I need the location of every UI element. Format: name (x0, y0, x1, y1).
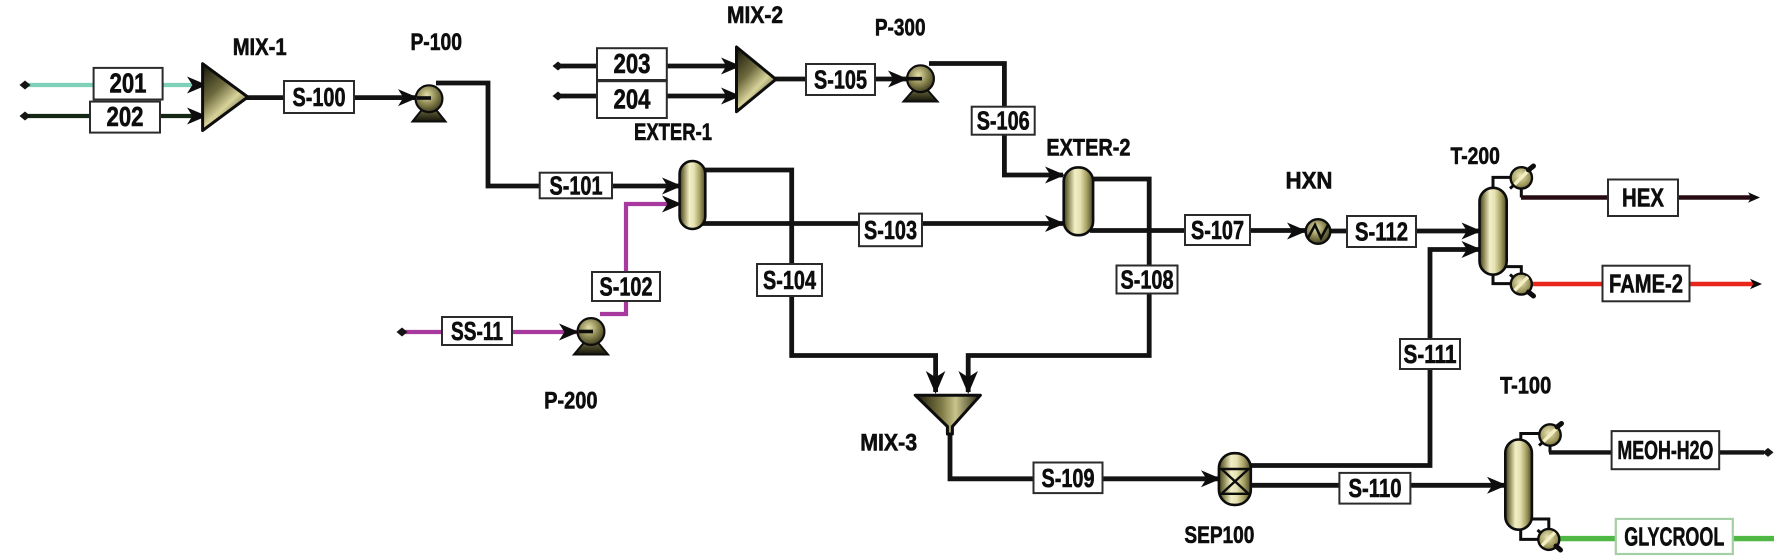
svg-text:SS-11: SS-11 (451, 316, 503, 346)
node S-104 label (757, 264, 822, 296)
arrow S-106 into EXTER-2 (1045, 167, 1065, 184)
svg-text:P-300: P-300 (875, 15, 926, 42)
svg-text:P-100: P-100 (410, 29, 462, 56)
node SS-11 label (442, 316, 512, 346)
wire T-200 reboiler vapor return (1505, 267, 1521, 276)
wire SS-11 (purple) (402, 330, 578, 334)
separator SEP100 (1219, 453, 1251, 505)
svg-text:S-111: S-111 (1404, 339, 1457, 369)
node GLYCROOL label (1616, 519, 1733, 554)
reboiler T-200 (1510, 274, 1534, 296)
svg-text:S-104: S-104 (763, 265, 816, 295)
svg-text:P-200: P-200 (544, 388, 597, 415)
wire T-200 reboiler liquid (1493, 272, 1511, 284)
wire S-110 SEP100 to T-100 (1248, 483, 1506, 488)
mixer MIX-1 (203, 64, 248, 131)
svg-text:S-109: S-109 (1042, 463, 1095, 493)
svg-text:MEOH-H2O: MEOH-H2O (1617, 435, 1713, 465)
condenser T-200 (1510, 166, 1534, 189)
arrow S-109 into SEP100 (1201, 470, 1221, 487)
mixer MIX-2 (737, 47, 776, 112)
wire S-104 EXTER-1 top to MIX-3 (701, 170, 936, 392)
svg-text:FAME-2: FAME-2 (1609, 269, 1683, 299)
node FAME-2 label (1603, 266, 1690, 302)
column T-200 (1480, 188, 1507, 275)
arrow S-111 into T-200 (1462, 241, 1482, 258)
heat exchanger HXN (1306, 219, 1331, 244)
node start marker 203 (553, 62, 564, 71)
wire S-102 P-200 outlet to EXTER-1 (purple) (600, 204, 672, 314)
svg-text:MIX-1: MIX-1 (233, 34, 287, 61)
arrow 204 into MIX-2 (721, 88, 741, 105)
wire S-107 EXTER-2 to HXN (1090, 228, 1306, 233)
wire T-200 condenser stub (1520, 186, 1523, 198)
wire SEP100 top to T-200 (S-111) (1246, 250, 1480, 466)
column T-100 (1505, 440, 1532, 530)
node start marker SS-11 (397, 328, 408, 337)
svg-text:204: 204 (614, 84, 651, 115)
node end marker MEOH-H2O (1763, 448, 1774, 457)
svg-text:203: 203 (614, 48, 651, 79)
svg-text:SEP100: SEP100 (1184, 522, 1254, 549)
svg-text:S-105: S-105 (814, 65, 867, 95)
wire stream 202 (dark green) (25, 114, 200, 118)
svg-text:S-108: S-108 (1121, 265, 1174, 295)
arrow S-110 into T-100 (1487, 477, 1507, 494)
node S-112 label (1347, 216, 1416, 247)
node 201 label (94, 68, 163, 100)
pump P-300 base (904, 90, 938, 102)
node S-108 label (1117, 265, 1178, 295)
node 202 label (90, 101, 160, 133)
node start marker 202 (20, 112, 31, 121)
svg-text:HXN: HXN (1286, 168, 1333, 195)
node S-109 label (1034, 463, 1103, 494)
svg-text:S-103: S-103 (864, 215, 917, 245)
wire HEX product line (1521, 195, 1752, 200)
arrow 201 into MIX-1 (187, 77, 207, 94)
node 203 label (597, 48, 667, 80)
svg-text:T-100: T-100 (1500, 373, 1551, 400)
node S-103 label (859, 214, 922, 247)
wire GLYCROOL product line (green) (1551, 536, 1774, 541)
pump P-100 base (413, 109, 446, 122)
node S-102 label (592, 272, 660, 302)
node S-100 label (284, 81, 354, 113)
svg-text:S-107: S-107 (1191, 215, 1244, 245)
arrow S-104 down into MIX-3 (926, 371, 946, 394)
svg-text:EXTER-1: EXTER-1 (634, 119, 712, 146)
condenser T-100 (1539, 424, 1562, 446)
svg-text:T-200: T-200 (1451, 143, 1500, 170)
wire P-300 outlet to EXTER-2 (S-106) (929, 64, 1063, 176)
arrow 202 into MIX-1 (187, 108, 207, 125)
wire S-103 EXTER-1 to EXTER-2 (700, 221, 1063, 226)
wire T-100 reboiler vapor return (1532, 519, 1549, 530)
svg-text:GLYCROOL: GLYCROOL (1624, 522, 1724, 552)
arrow S-112 into T-200 (1462, 223, 1482, 240)
mixer MIX-3 (funnel) (915, 395, 980, 434)
arrow S-108 down into MIX-3 (958, 371, 978, 394)
svg-text:202: 202 (107, 101, 144, 132)
node S-101 label (540, 171, 612, 201)
wire T-200 condenser loop (1493, 177, 1510, 190)
pump P-300 (907, 65, 934, 92)
node end marker FAME-2 (1750, 279, 1762, 289)
node S-110 label (1339, 473, 1410, 504)
arrow SS-11 into P-200 (559, 324, 579, 341)
svg-text:MIX-2: MIX-2 (727, 2, 783, 29)
wire stream 204 (558, 94, 740, 99)
node S-107 label (1185, 215, 1250, 245)
wire S-105 mixer to pump (774, 77, 907, 82)
node HEX label (1608, 180, 1678, 217)
svg-text:HEX: HEX (1622, 183, 1665, 213)
svg-text:201: 201 (110, 68, 147, 99)
reboiler T-100 (1538, 529, 1561, 550)
wire stream 201 (teal) (25, 83, 200, 87)
wire stream 203 (558, 64, 740, 69)
pump P-100 (416, 85, 443, 112)
svg-text:S-110: S-110 (1349, 473, 1402, 503)
svg-text:EXTER-2: EXTER-2 (1046, 135, 1130, 162)
wire T-100 condenser stub (1549, 444, 1552, 452)
svg-text:S-106: S-106 (977, 106, 1030, 136)
node start marker 204 (553, 92, 564, 101)
wire FAME-2 product line (red) (1527, 282, 1753, 287)
node S-111 label (1400, 339, 1460, 369)
column EXTER-1 (680, 161, 706, 229)
arrow S-103 into EXTER-2 (1045, 215, 1065, 232)
node start marker 201 (20, 81, 31, 90)
arrow S-100 into P-100 (398, 89, 418, 106)
svg-text:MIX-3: MIX-3 (860, 429, 917, 456)
node S-106 label (972, 106, 1035, 136)
svg-text:S-112: S-112 (1355, 217, 1408, 247)
svg-text:S-101: S-101 (550, 171, 603, 201)
arrow S-107 into HXN (1287, 223, 1307, 240)
wire T-100 reboiler liquid (1521, 527, 1540, 539)
wire MEOH-H2O product line (1549, 450, 1764, 454)
wire P-100 outlet to EXTER-1 (S-101) (436, 83, 681, 186)
pump P-200 base (574, 342, 608, 355)
node end marker HEX (1748, 192, 1760, 202)
column EXTER-2 (1064, 167, 1093, 235)
svg-text:S-100: S-100 (293, 82, 346, 112)
wire S-112 HXN to T-200 (1330, 229, 1480, 234)
arrow S-101 into EXTER-1 (662, 178, 682, 195)
arrow S-102 into EXTER-1 (662, 196, 682, 213)
wire S-100 mixer to pump (246, 95, 417, 100)
wire T-100 condenser loop (1521, 434, 1539, 442)
wire S-108 EXTER-2 top to MIX-3 (968, 179, 1149, 392)
wire S-109 MIX-3 to SEP100 (950, 432, 1219, 479)
arrow S-105 into P-300 (888, 71, 908, 88)
node S-105 label (806, 64, 875, 95)
svg-text:S-102: S-102 (600, 272, 653, 302)
arrow 203 into MIX-2 (721, 58, 741, 75)
node 204 label (597, 81, 667, 118)
node MEOH-H2O label (1612, 431, 1720, 469)
pump P-200 (578, 318, 605, 345)
